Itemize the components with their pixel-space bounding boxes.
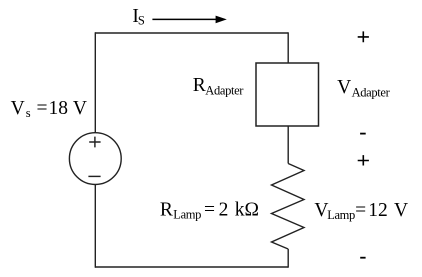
wire left vertical upper: [94, 32, 96, 133]
svg-text:12: 12: [368, 200, 388, 221]
svg-text:2: 2: [219, 200, 229, 221]
svg-text:=: =: [37, 98, 48, 119]
resistor R_Adapter box: [256, 63, 319, 126]
svg-text:V: V: [337, 77, 351, 98]
wire bottom horizontal: [95, 266, 288, 268]
svg-text:R: R: [193, 75, 206, 96]
wire left vertical lower: [94, 184, 96, 268]
svg-text:V: V: [11, 98, 25, 119]
wire top horizontal: [95, 32, 288, 34]
current arrow I_S: [152, 18, 217, 20]
svg-text:V: V: [73, 98, 87, 119]
svg-text:=: =: [355, 200, 366, 221]
wire right vertical between adapter and lamp: [287, 126, 289, 164]
polarity plus V_Lamp: [358, 155, 369, 165]
minus sign inside source: [88, 175, 100, 177]
svg-text:S: S: [138, 14, 145, 28]
polarity plus V_Adapter: [358, 31, 369, 42]
svg-text:Lamp: Lamp: [327, 208, 355, 222]
resistor R_Lamp zigzag: [272, 164, 305, 250]
plus sign inside source: [89, 137, 100, 148]
svg-text:18: 18: [49, 98, 69, 119]
svg-text:s: s: [26, 106, 31, 120]
svg-text:R: R: [160, 200, 173, 221]
svg-text:kΩ: kΩ: [235, 200, 259, 221]
svg-text:Adapter: Adapter: [352, 86, 391, 100]
svg-text:Lamp: Lamp: [173, 207, 201, 221]
polarity minus V_Lamp: [360, 257, 365, 259]
svg-text:Adapter: Adapter: [205, 83, 244, 97]
wire right vertical upper: [287, 32, 289, 63]
svg-text:=: =: [204, 200, 215, 221]
polarity minus V_Adapter: [360, 133, 366, 135]
wire right vertical below lamp: [287, 249, 289, 268]
voltage source V_s circle: [69, 133, 121, 185]
svg-text:V: V: [394, 200, 408, 221]
